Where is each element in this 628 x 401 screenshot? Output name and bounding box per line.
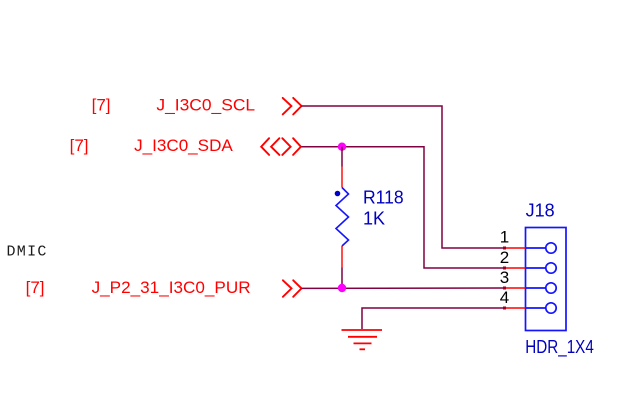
wire R118 top to SDA junction [341, 147, 343, 167]
svg-text:[7]: [7] [26, 278, 45, 297]
svg-text:[7]: [7] [92, 96, 111, 115]
svg-text:R118: R118 [363, 188, 404, 208]
svg-text:DMIC: DMIC [7, 244, 48, 261]
J18 pin 2 circle [526, 263, 557, 273]
wire SCL from connector to J18 pin 1 [302, 106, 505, 248]
resistor R118 pin 2 stub [341, 246, 343, 268]
svg-text:J_P2_31_I3C0_PUR: J_P2_31_I3C0_PUR [92, 278, 251, 297]
J18 pin 3 circle [526, 283, 557, 293]
junction node SDA / R118 top [338, 143, 346, 151]
J18 pin 1 stub [505, 247, 526, 249]
svg-text:J18: J18 [526, 201, 555, 221]
svg-text:1: 1 [500, 228, 509, 247]
wire SDA from connector to J18 pin 2 [302, 147, 505, 268]
resistor R118 pin-1 marker dot [335, 191, 341, 197]
hotpoint pin 4 [503, 307, 506, 310]
wire R118 bottom to PUR junction [341, 268, 343, 289]
off-page connector J_P2_31_I3C0_PUR output chevrons [283, 280, 302, 297]
svg-text:HDR_1X4: HDR_1X4 [525, 337, 594, 358]
connector J18 body [526, 228, 567, 331]
svg-text:1K: 1K [363, 209, 385, 229]
ground symbol [342, 330, 383, 349]
junction node PUR / R118 bottom [338, 284, 346, 292]
svg-text:4: 4 [500, 288, 509, 307]
J18 pin 4 circle [526, 303, 557, 313]
hotpoint pin 2 [503, 267, 506, 270]
J18 pin 1 circle [526, 243, 557, 253]
wire J18 pin 4 to ground [362, 308, 505, 329]
hotpoint pin 3 [503, 287, 506, 290]
svg-text:J_I3C0_SCL: J_I3C0_SCL [156, 96, 255, 115]
svg-text:2: 2 [500, 248, 509, 267]
wire PUR from connector to J18 pin 3 [302, 287, 505, 289]
J18 pin 3 stub [505, 287, 526, 289]
resistor R118 body [336, 188, 349, 247]
J18 pin 2 stub [505, 267, 526, 269]
hotpoint pin 1 [503, 247, 506, 250]
J18 pin 4 stub [505, 307, 526, 309]
off-page connector J_I3C0_SCL output chevrons [283, 98, 302, 115]
svg-text:3: 3 [500, 268, 509, 287]
svg-text:J_I3C0_SDA: J_I3C0_SDA [134, 136, 233, 155]
off-page connector J_I3C0_SDA bidirectional chevrons [261, 138, 301, 155]
svg-text:[7]: [7] [70, 136, 89, 155]
resistor R118 pin 1 stub [341, 167, 343, 188]
